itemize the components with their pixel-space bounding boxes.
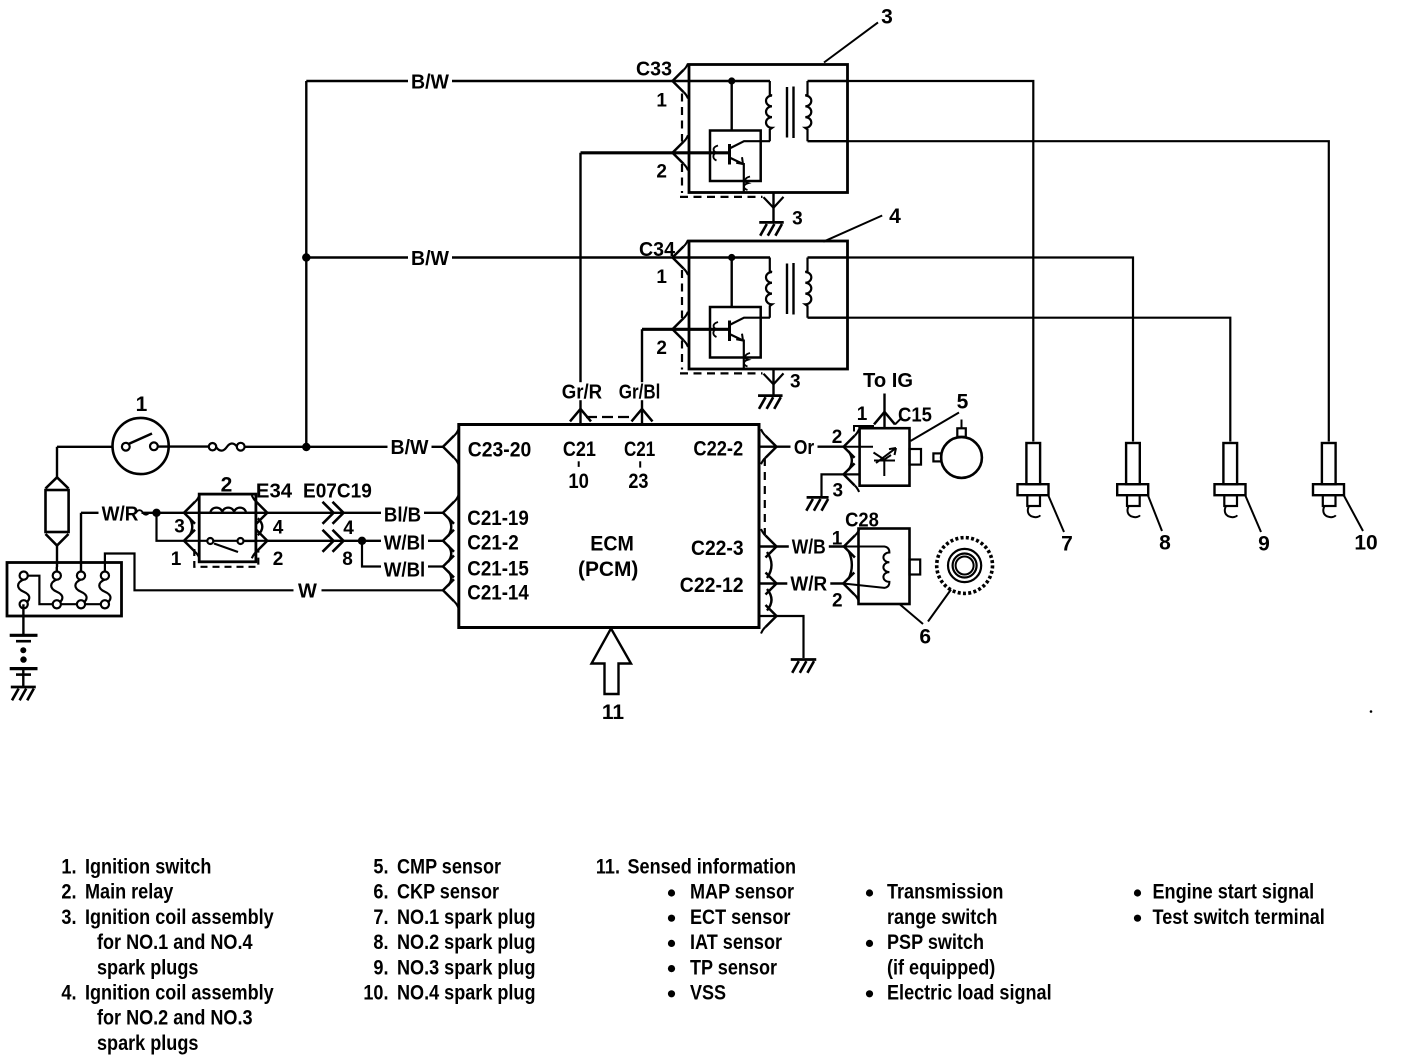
wire: ECM C22-2 to C15 pin 2 (Or) [759, 446, 844, 448]
svg-text:NO.3 spark plug: NO.3 spark plug [397, 956, 536, 979]
connector C15 pin 2 bracket [844, 436, 855, 458]
svg-text:6.: 6. [373, 881, 388, 904]
wire: junction down to power transistor in C33 [731, 81, 733, 131]
ECM (PCM) box [459, 425, 759, 628]
ground (C15 pin 3) [807, 496, 829, 499]
svg-text:4: 4 [889, 205, 901, 228]
wire: fuse to ECM C23-20 with B/W label [245, 446, 443, 448]
svg-text:11.: 11. [596, 856, 620, 879]
svg-text:Electric load signal: Electric load signal [887, 982, 1052, 1005]
connector C33 dashed outline [681, 94, 683, 142]
ECM pin C23-20 bracket [443, 436, 454, 458]
svg-text:W/B: W/B [792, 537, 826, 559]
wire: ignition switch to fuse [158, 445, 209, 447]
transistor emitter with arrow in C34 [730, 334, 744, 341]
svg-text:W: W [298, 581, 317, 603]
battery [10, 634, 38, 637]
connector E34 dashed outline [194, 549, 258, 567]
wire: To IG feed into C15 pin 1 [883, 394, 885, 429]
wire: pin 1 B+ feed inside C34 [673, 256, 771, 258]
inline connector E07C19 pin 4 (double chevron) [323, 502, 334, 524]
svg-text:Engine start signal: Engine start signal [1153, 881, 1315, 904]
ECM pin C21-15 bracket [443, 556, 454, 578]
wire: fuse box to battery [22, 604, 24, 634]
spark plug 10 (NO.4) [1322, 443, 1336, 484]
connector C15 pin 1 bracket (top) [874, 412, 895, 425]
ground arrow below C33 [764, 197, 784, 208]
label W/Bl (to C21-2) [381, 534, 428, 551]
spark plug 9 (NO.3) [1223, 443, 1237, 484]
wire: C33 secondary bottom to NO.4 spark plug [849, 141, 1329, 441]
svg-text:2: 2 [273, 549, 284, 570]
svg-text:Gr/Bl: Gr/Bl [619, 382, 661, 404]
svg-text:C28: C28 [845, 510, 879, 532]
svg-text:ECM: ECM [590, 533, 634, 556]
svg-text:8.: 8. [373, 931, 388, 954]
connector C33 pin 1 bracket [673, 70, 684, 92]
connector C34 dashed outline [681, 270, 683, 318]
hall-effect symbol inside C15 [874, 453, 892, 477]
svg-text:C33: C33 [636, 58, 672, 80]
svg-text:W/Bl: W/Bl [384, 533, 426, 555]
svg-text:for NO.2 and NO.3: for NO.2 and NO.3 [97, 1007, 253, 1030]
callout 5 leader lines [911, 413, 960, 442]
svg-text:C23-20: C23-20 [468, 438, 532, 461]
fuse element 1 in junction block [18, 580, 29, 604]
svg-text:B/W: B/W [411, 71, 449, 93]
svg-text:MAP sensor: MAP sensor [690, 881, 794, 904]
wire: ECM ground pin to chassis [759, 616, 804, 658]
svg-text:10: 10 [1354, 532, 1377, 555]
svg-text:9.: 9. [373, 956, 388, 979]
callout 9 leader line [1245, 495, 1261, 532]
wire: junction down to relay pin 1 [157, 513, 268, 541]
fuse box (junction block) [7, 563, 122, 617]
label B/W (middle wire) [408, 249, 452, 266]
label W/R [99, 505, 142, 522]
wire: junction down to power transistor in C34 [731, 258, 733, 308]
spark plug 8 (NO.2) [1126, 443, 1140, 484]
svg-text:IAT sensor: IAT sensor [690, 931, 782, 954]
svg-text:NO.2 spark plug: NO.2 spark plug [397, 931, 536, 954]
transistor collector in C34 [730, 318, 771, 325]
wire: W fuse feed to ECM C21-14 [105, 554, 443, 591]
transistor collector in C33 [730, 141, 771, 148]
svg-text:1: 1 [857, 404, 868, 425]
svg-text:1: 1 [136, 393, 148, 416]
connector E34 pin 4 bracket [256, 502, 267, 524]
callout 3 leader line [824, 22, 878, 62]
svg-text:1: 1 [832, 528, 843, 549]
power transistor box in C34 [710, 307, 761, 358]
svg-text:Bl/B: Bl/B [384, 504, 421, 526]
wire: Gr/Bl from C34 pin 2 to ECM C21-23 [642, 328, 673, 331]
wire: B/W top feed to C33 pin 1 [306, 80, 672, 82]
svg-text:3: 3 [881, 6, 893, 29]
svg-text:E07C19: E07C19 [303, 480, 372, 502]
ignition coil assembly C34 box [689, 241, 848, 369]
svg-text:1: 1 [656, 267, 667, 288]
wire kink on W/R before junction [136, 510, 149, 515]
transformer core in C33 [786, 87, 788, 138]
svg-text:5: 5 [957, 391, 969, 414]
relay coil [199, 508, 256, 513]
sensed information arrow 11 into ECM [592, 629, 632, 695]
connector E34 pin 3 bracket [184, 502, 195, 524]
ignition coil secondary winding in C33 [805, 81, 811, 141]
wire: C15 pin 2 into box [844, 446, 873, 448]
wire: battery feed to ignition switch [57, 446, 122, 448]
dashed connector joint at ECM top [586, 416, 629, 418]
svg-text:C21-2: C21-2 [467, 532, 518, 555]
svg-text:2: 2 [221, 474, 233, 497]
stray scan speck [1370, 710, 1373, 713]
svg-text:23: 23 [628, 470, 648, 493]
svg-text:10: 10 [568, 470, 589, 493]
svg-text:C21-14: C21-14 [467, 581, 529, 604]
ECM pin C21-19 bracket [443, 502, 454, 524]
ECM top pin to Gr/Bl [632, 409, 653, 422]
callout 4 leader line [823, 216, 882, 242]
svg-text:W/R: W/R [790, 574, 827, 596]
ground arrow below C34 [764, 373, 784, 384]
svg-text:C22-3: C22-3 [691, 537, 744, 560]
callout 8 leader line [1148, 495, 1162, 531]
power transistor box in C33 [710, 131, 761, 182]
wire: C15 pin 3 to ground [822, 474, 861, 496]
main relay 2 box [199, 494, 256, 562]
node: junction W/Bl split [358, 537, 366, 545]
wire: pin 2 base drive in C34 [673, 328, 729, 331]
wire: B/W vertical trunk [305, 81, 307, 447]
svg-text:B/W: B/W [411, 248, 449, 270]
ECM right connector dashed edge [764, 458, 766, 535]
ECM pin C21-14 bracket [443, 579, 454, 601]
ignition coil assembly C33 box [689, 65, 848, 193]
svg-text:C34: C34 [639, 239, 676, 261]
svg-text:W/R: W/R [102, 503, 139, 525]
label B/W (top wire) [408, 73, 452, 90]
connector C28 pin 1 bracket [844, 536, 855, 558]
ignition coil secondary winding in C34 [805, 258, 811, 318]
fuse (ignition circuit) [209, 443, 216, 450]
wire: secondary top lead out of C34 [808, 256, 849, 258]
svg-text:Ignition coil assembly: Ignition coil assembly [85, 906, 274, 929]
svg-text:(PCM): (PCM) [578, 558, 638, 581]
wire: secondary bottom lead out of C33 [808, 140, 849, 142]
svg-text:NO.4 spark plug: NO.4 spark plug [397, 982, 536, 1005]
connector C15 pin 3 bracket [844, 463, 855, 485]
svg-text:E34: E34 [256, 480, 293, 502]
fuse element 2 in junction block [51, 580, 62, 604]
svg-text:9: 9 [1258, 533, 1270, 556]
svg-text:Test switch terminal: Test switch terminal [1153, 906, 1325, 929]
inline connector E07C19 pin 8 (double chevron) [323, 530, 334, 552]
callout 10 leader line [1344, 495, 1363, 531]
fuse box internal bus [28, 576, 105, 605]
svg-text:CKP sensor: CKP sensor [397, 881, 499, 904]
svg-text:1: 1 [171, 549, 182, 570]
wire: C34 secondary bottom to NO.3 spark plug [849, 318, 1231, 442]
svg-text:8: 8 [1159, 532, 1171, 555]
relay switch contacts [207, 538, 213, 544]
svg-text:2: 2 [832, 427, 843, 448]
C28 sensor tab [910, 560, 921, 575]
wire: W/Bl branch to C21-15 [362, 541, 443, 567]
connector E34 pin 1 bracket [184, 530, 195, 552]
ECM right pin C22-2 bracket [766, 436, 777, 458]
C15 CMP sensor connector box [860, 428, 910, 486]
node: junction B/W trunk / C34 feed [302, 253, 310, 261]
wire: emitter to ground below C34 [772, 369, 774, 396]
svg-text:C21-15: C21-15 [467, 557, 529, 580]
svg-text:5.: 5. [373, 856, 388, 879]
node: junction B/W trunk / ECM feed [302, 443, 310, 451]
svg-text:Or: Or [794, 437, 814, 459]
svg-text:10.: 10. [363, 982, 388, 1005]
C28 CKP sensor connector box [859, 529, 910, 605]
svg-text:NO.1 spark plug: NO.1 spark plug [397, 906, 536, 929]
svg-text:2.: 2. [61, 881, 76, 904]
C15 sensor tab [910, 449, 922, 465]
wire: pin 1 B+ feed inside C33 [673, 80, 771, 82]
svg-text:6: 6 [919, 626, 931, 649]
transistor emitter with arrow in C33 [730, 158, 744, 165]
svg-text:spark plugs: spark plugs [97, 956, 198, 979]
ground (C33 pin 3) [759, 221, 784, 224]
callout 6 leader lines [900, 605, 923, 625]
wire: C34 secondary top to NO.2 spark plug [849, 258, 1134, 442]
svg-text:C22-2: C22-2 [693, 438, 743, 461]
ignition coil primary winding in C33 [766, 81, 772, 141]
wire: Gr/R from C33 pin 2 to ECM C21-10 [581, 151, 673, 154]
node: junction W/R to relay pins 3 and 1 [152, 509, 160, 517]
ground (ECM) [791, 658, 817, 661]
svg-text:range switch: range switch [887, 906, 997, 929]
ignition coil primary winding in C34 [766, 258, 772, 318]
svg-text:7: 7 [1061, 533, 1073, 556]
transistor base bar in C34 [728, 321, 731, 342]
svg-text:W/Bl: W/Bl [384, 560, 426, 582]
fuse element 3 in junction block [75, 580, 86, 604]
svg-text:C21: C21 [624, 438, 656, 461]
node: junction inside C34 [728, 254, 735, 261]
svg-text:To IG: To IG [863, 370, 913, 392]
transistor base squiggle in C34 [713, 322, 718, 337]
callout 7 leader line [1048, 495, 1064, 532]
svg-text:7.: 7. [373, 906, 388, 929]
svg-text:for NO.1 and NO.4: for NO.1 and NO.4 [97, 931, 253, 954]
svg-text:Transmission: Transmission [887, 881, 1003, 904]
wire: ECM C22-12 to C28 pin 2 (W/R) [759, 582, 843, 584]
legend column 4: more sensed information [866, 889, 873, 896]
svg-text:TP sensor: TP sensor [690, 956, 777, 979]
spark plug 7 (NO.1) [1026, 443, 1040, 484]
ECM right pin (ground) bracket [766, 605, 777, 627]
transformer core in C34 [786, 264, 788, 315]
transistor base bar in C33 [728, 144, 731, 165]
emitter squiggle in C33 [744, 177, 750, 191]
svg-text:8: 8 [342, 549, 353, 570]
svg-text:2: 2 [656, 162, 667, 183]
wire: W/R from fuse box to relay junction [81, 512, 443, 514]
svg-text:PSP switch: PSP switch [887, 931, 984, 954]
ignition switch 1 (circle) [113, 418, 169, 474]
wire: secondary bottom lead out of C34 [808, 317, 849, 319]
wire: ECM C22-3 to C28 pin 1 (W/B) [759, 545, 844, 547]
svg-text:3: 3 [833, 481, 844, 502]
fuse element 4 in junction block [99, 580, 110, 604]
ECM right pin C22-3 bracket [766, 536, 777, 558]
svg-text:3: 3 [790, 372, 801, 393]
svg-text:4: 4 [273, 517, 284, 538]
wire: secondary top lead out of C33 [808, 80, 849, 82]
CKP pickup coil inside C28 [843, 547, 889, 588]
svg-text:B/W: B/W [391, 437, 429, 459]
svg-text:Ignition switch: Ignition switch [85, 856, 211, 879]
svg-text:CMP sensor: CMP sensor [397, 856, 501, 879]
svg-text:3: 3 [792, 209, 803, 230]
svg-text:Main relay: Main relay [85, 881, 174, 904]
svg-text:1: 1 [656, 91, 667, 112]
wire: emitter to ground below C33 [772, 193, 774, 223]
wire: fusible link into fuse box [56, 567, 58, 572]
wire: B/W middle feed to C34 pin 1 [306, 256, 672, 258]
svg-text:3: 3 [174, 516, 185, 537]
ECM pin C21-2 bracket [443, 530, 454, 552]
svg-text:2: 2 [832, 591, 843, 612]
svg-text:C15: C15 [898, 404, 932, 426]
svg-text:C22-12: C22-12 [680, 574, 744, 597]
node: junction inside C33 [728, 77, 735, 84]
wire: C33 secondary top to NO.1 spark plug [849, 81, 1034, 442]
svg-text:4.: 4. [61, 982, 76, 1005]
emitter squiggle in C34 [744, 353, 750, 367]
fusible link symbol [46, 477, 69, 488]
wire: pin 2 base drive in C33 [673, 151, 729, 154]
ground (battery) [11, 686, 36, 689]
label Bl/B [381, 506, 424, 523]
transistor base squiggle in C33 [713, 146, 718, 161]
svg-text:3.: 3. [61, 906, 76, 929]
ground (C34 pin 3) [758, 394, 783, 397]
svg-text:4: 4 [343, 518, 354, 539]
svg-text:(if equipped): (if equipped) [887, 956, 995, 979]
wire: W/R fuse feed [80, 513, 82, 572]
svg-text:C21-19: C21-19 [467, 507, 529, 530]
svg-text:ECT sensor: ECT sensor [690, 906, 790, 929]
svg-text:11: 11 [602, 701, 625, 724]
label W on wire [294, 582, 322, 599]
ignition switch blade [129, 434, 153, 445]
ECM right pin C22-12 bracket [766, 573, 777, 595]
ECM top pin to Gr/R [570, 409, 591, 422]
svg-text:Sensed information: Sensed information [628, 856, 797, 879]
connector C34 pin 1 bracket [673, 247, 684, 269]
svg-text:Gr/R: Gr/R [562, 382, 603, 404]
svg-text:VSS: VSS [690, 982, 726, 1005]
label W/Bl (to C21-15) [381, 561, 428, 578]
connector C34 pin 2 bracket [673, 318, 684, 340]
svg-text:spark plugs: spark plugs [97, 1032, 198, 1055]
connector C28 pin 2 bracket [843, 573, 854, 595]
CKP reluctor wheel (toothed) [937, 538, 993, 594]
connector C33 pin 2 bracket [673, 142, 684, 164]
legend column 5: more sensed information [1134, 889, 1141, 896]
connector E34 pin 2 bracket [256, 530, 267, 552]
svg-text:C21: C21 [563, 438, 596, 461]
svg-text:2: 2 [656, 338, 667, 359]
CMP sensor body (5) [941, 437, 982, 478]
wire: relay pin 2 output row [267, 540, 443, 542]
svg-text:1.: 1. [61, 856, 76, 879]
svg-text:Ignition coil assembly: Ignition coil assembly [85, 982, 274, 1005]
